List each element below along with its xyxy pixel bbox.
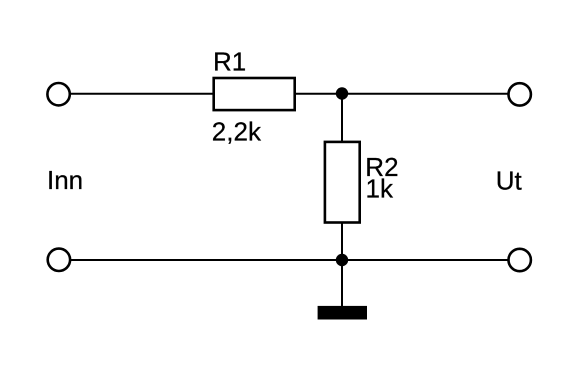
terminal circle input top — [47, 83, 69, 105]
wire junction top to R2 — [341, 94, 343, 143]
resistor R1 — [214, 78, 295, 110]
terminal circle output bottom — [509, 249, 531, 271]
node junction top — [336, 87, 348, 99]
ground — [318, 306, 367, 320]
node junction bottom — [336, 254, 348, 266]
svg-text:2,2k: 2,2k — [212, 117, 262, 147]
wire R2 to ground — [341, 222, 343, 307]
svg-text:1k: 1k — [366, 174, 394, 204]
wire R1 to output top — [295, 93, 509, 95]
svg-text:Ut: Ut — [496, 165, 523, 195]
resistor R2 — [325, 142, 360, 223]
svg-text:R1: R1 — [213, 47, 246, 77]
terminal circle input bottom — [48, 249, 70, 271]
svg-text:Inn: Inn — [47, 165, 83, 195]
terminal circle output top — [509, 83, 531, 105]
wire input top to R1 — [71, 93, 215, 95]
wire input bottom to output bottom — [71, 259, 509, 261]
